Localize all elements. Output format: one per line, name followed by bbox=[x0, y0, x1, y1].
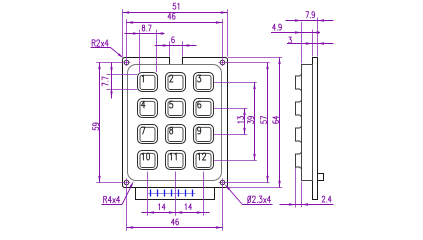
label R4x4 (bezel corner radius) bbox=[102, 181, 134, 204]
side view back plate bbox=[313, 58, 318, 200]
dimension 46 (hole spacing horizontal) bbox=[127, 13, 223, 24]
button 1 bbox=[138, 73, 158, 92]
extension line row3 center bbox=[214, 134, 247, 136]
screw hole top-left bbox=[124, 60, 129, 65]
button 8 bbox=[166, 125, 186, 144]
dimension 59 (height to hole) bbox=[93, 63, 101, 183]
button 3 bbox=[194, 73, 214, 92]
extension lines for dim 8.7 bbox=[140, 30, 157, 72]
side view key bump 1 bbox=[296, 74, 302, 90]
dimension 3 (plate thickness) bbox=[287, 37, 334, 45]
connector pins (7) bbox=[148, 190, 196, 197]
dimension 14 col1-col2 bbox=[142, 204, 176, 214]
side view key bump 2 bbox=[296, 100, 302, 116]
extension lines for dim 6 bbox=[170, 41, 183, 57]
screw hole bottom-left bbox=[124, 180, 129, 185]
extension lines for dim 51 bbox=[123, 9, 228, 56]
extension line plate top right bbox=[228, 57, 282, 59]
extension line col3 center bbox=[203, 172, 205, 216]
button 10 bbox=[138, 151, 158, 170]
extension line row1 center bbox=[214, 82, 257, 84]
extension line top hole center right bbox=[219, 62, 270, 64]
dimension 57 (hole spacing vertical) bbox=[261, 63, 269, 183]
button 12 bbox=[194, 151, 214, 170]
label diameter 2.3x4 (screw holes) bbox=[225, 184, 273, 204]
bezel (raised key area) bbox=[128, 65, 222, 181]
dimension 14 col2-col3 bbox=[176, 204, 210, 214]
button 5 bbox=[166, 99, 186, 118]
dimension 64 (overall height) bbox=[273, 58, 281, 188]
extension line top hole center left bbox=[96, 62, 130, 64]
side view bezel layer bbox=[302, 65, 313, 181]
dimension 46 (bottom hole spacing) bbox=[127, 219, 223, 229]
extension lines for dim 46 bottom bbox=[127, 178, 223, 230]
extension line bottom hole center right bbox=[219, 182, 270, 184]
screw hole bottom-right bbox=[220, 180, 225, 185]
extension line col2 center bbox=[175, 172, 177, 216]
dimension 39 (rows 1-4 span) bbox=[248, 83, 256, 161]
side view key bump 4 bbox=[296, 152, 302, 168]
button 6 bbox=[194, 99, 214, 118]
dimension 8.7 (key width) bbox=[125, 25, 165, 35]
extension lines side view faces bbox=[296, 18, 318, 208]
extension line row2 center bbox=[214, 108, 247, 110]
extension line col1 center bbox=[147, 172, 149, 216]
dimension 2.4 (key protrusion) bbox=[280, 196, 334, 206]
dimension 4.9 bbox=[271, 24, 320, 34]
label R2x4 (plate corner radius) bbox=[91, 40, 124, 59]
dimension 13 (row pitch) bbox=[238, 109, 246, 135]
extension lines for dim 46 top bbox=[127, 19, 223, 66]
button 2 bbox=[166, 73, 186, 92]
dimension 7.7 (key height) bbox=[102, 63, 113, 99]
extension line key1 top bbox=[107, 74, 138, 76]
dimension 7.9 (overall thickness) bbox=[286, 12, 334, 22]
extension line bottom hole center left bbox=[96, 182, 130, 184]
side view key bump 3 bbox=[296, 126, 302, 142]
extension line row4 center bbox=[214, 160, 257, 162]
screw hole top-right bbox=[220, 60, 225, 65]
keypad plate outline (front view) bbox=[123, 58, 228, 188]
dimension 51 (overall width) bbox=[123, 3, 228, 14]
extension line plate bottom right bbox=[228, 187, 282, 189]
connector housing bbox=[136, 188, 215, 200]
button 4 bbox=[138, 99, 158, 118]
dimension 6 (notch width) bbox=[155, 37, 197, 47]
button 11 bbox=[166, 151, 186, 170]
extension line key1 bottom bbox=[107, 89, 138, 91]
side view mounting step bbox=[318, 174, 324, 181]
button 9 bbox=[194, 125, 214, 144]
button 7 bbox=[138, 125, 158, 144]
